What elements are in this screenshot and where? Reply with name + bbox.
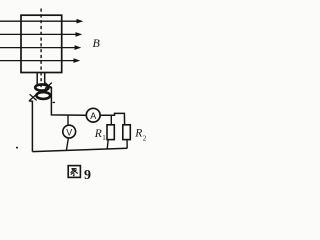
speck on right wire bbox=[53, 102, 55, 103]
armature neck left lead bbox=[36, 73, 38, 85]
wire right (brush down then to ammeter) bbox=[49, 86, 87, 115]
svg-text:V: V bbox=[66, 127, 72, 137]
wire left (brush to bottom-left corner) bbox=[29, 101, 33, 152]
field line arrow 4 bbox=[0, 58, 80, 63]
node V tap junction bbox=[67, 115, 69, 125]
label R1 bbox=[94, 128, 107, 142]
wire R1 to bottom bbox=[107, 140, 108, 149]
svg-text:B: B bbox=[93, 36, 101, 50]
resistor R1 bbox=[107, 125, 114, 140]
rotation axis (dashed) bbox=[40, 9, 42, 89]
svg-text:9: 9 bbox=[84, 168, 91, 183]
caption glyph 图 (drawn) bbox=[68, 166, 80, 178]
slip ring lower bbox=[36, 92, 50, 99]
svg-text:R: R bbox=[94, 128, 102, 140]
field region rectangle bbox=[21, 15, 62, 72]
svg-text:A: A bbox=[90, 111, 96, 121]
wire R2 to bottom bbox=[126, 140, 128, 149]
voltmeter V bbox=[63, 125, 76, 138]
slip ring upper bbox=[35, 84, 48, 90]
field line arrow 3 bbox=[0, 45, 81, 50]
brush upper X bbox=[45, 83, 52, 89]
svg-text:1: 1 bbox=[102, 134, 106, 142]
svg-text:2: 2 bbox=[143, 134, 147, 142]
svg-text:R: R bbox=[134, 127, 142, 139]
resistor R2 bbox=[123, 125, 131, 140]
brush lower X bbox=[30, 94, 37, 100]
ammeter A bbox=[86, 108, 100, 122]
field line arrow 1 bbox=[0, 19, 83, 24]
armature neck right lead bbox=[44, 73, 46, 84]
label R2 bbox=[134, 127, 147, 142]
wire bottom bbox=[32, 148, 127, 151]
wire voltmeter to bottom bbox=[66, 138, 68, 150]
field line arrow 2 bbox=[0, 32, 82, 37]
wire junction to R1 bbox=[110, 115, 112, 125]
wire ammeter to R2 corner bbox=[100, 113, 125, 124]
stray dot (print speck) bbox=[16, 147, 18, 149]
